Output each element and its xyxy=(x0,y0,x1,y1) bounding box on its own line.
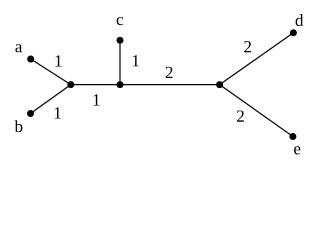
node b xyxy=(27,110,34,117)
wire edge a-n1 xyxy=(31,59,71,85)
wire edge n1-n2 xyxy=(71,84,120,86)
node n3 junction xyxy=(216,81,223,88)
weight 1 edge b-n1 xyxy=(55,107,61,118)
node a xyxy=(27,56,34,63)
weight 2 edge n3-d xyxy=(244,41,251,52)
weight 1 edge c-n2 xyxy=(133,55,139,66)
wire edge n3-d xyxy=(220,33,294,85)
label node a xyxy=(15,44,22,52)
wire edge n3-e xyxy=(220,85,293,137)
node d xyxy=(290,29,297,36)
wire edge b-n1 xyxy=(31,85,71,114)
weight 2 edge n3-e xyxy=(237,110,244,121)
label node e xyxy=(294,146,300,154)
weight 1 edge n1-n2 xyxy=(94,94,100,105)
weight 2 edge n2-n3 xyxy=(166,67,173,78)
wire edge n2-n3 xyxy=(120,84,220,86)
node n1 junction xyxy=(67,81,74,88)
wire edge c-n2 xyxy=(119,40,121,84)
node n2 junction xyxy=(117,81,124,88)
label node d xyxy=(296,14,304,26)
label node b xyxy=(15,120,23,132)
node e xyxy=(289,133,296,140)
node c xyxy=(117,37,124,44)
label node c xyxy=(117,17,123,25)
weight 1 edge a-n1 xyxy=(56,55,62,66)
